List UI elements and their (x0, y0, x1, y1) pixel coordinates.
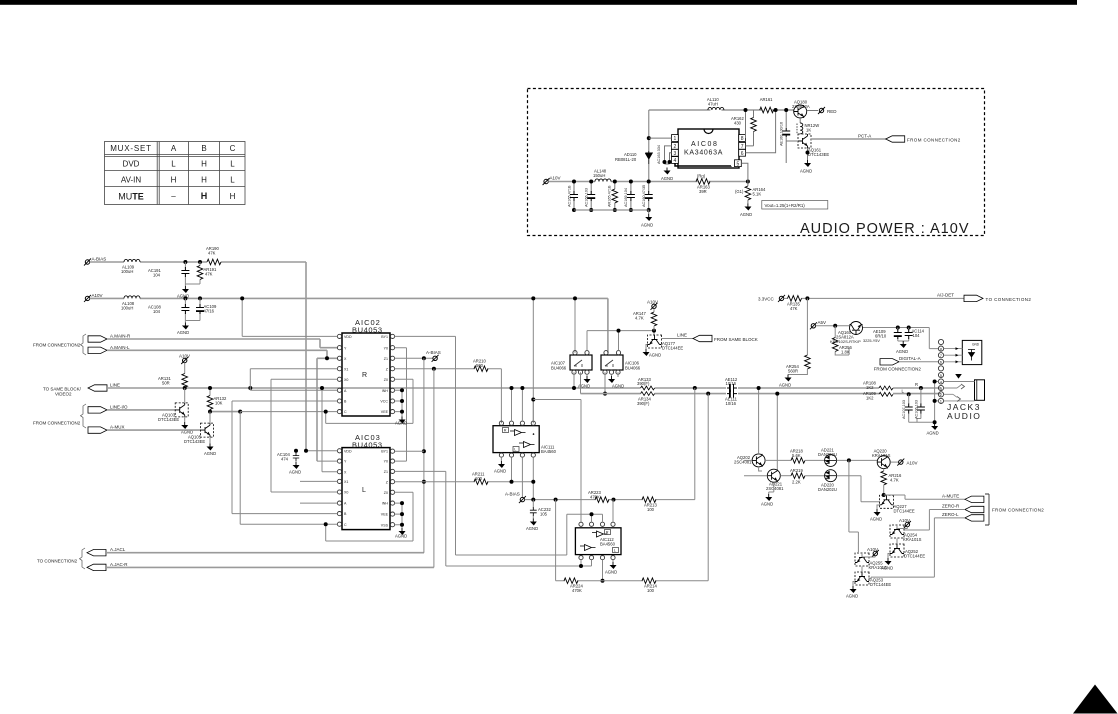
wire AQ103 collector (184, 388, 186, 422)
ground AQ253 (853, 582, 855, 587)
svg-text:A10V: A10V (647, 300, 658, 305)
svg-text:6R/10: 6R/10 (875, 334, 887, 339)
svg-text:BU4053: BU4053 (352, 326, 383, 335)
svg-text:AUDIO: AUDIO (947, 411, 981, 421)
wire A-MUX (107, 429, 201, 431)
wire AIC112 pins bottom feedback (581, 560, 592, 566)
ground A10V filter (184, 321, 186, 323)
transistor Q AQ177 DTC144EE (648, 335, 662, 348)
capacitor AC232 105 (532, 500, 534, 519)
svg-text:3: 3 (674, 151, 677, 157)
svg-text:4.7K: 4.7K (890, 478, 899, 483)
node pin1 junction (647, 136, 651, 140)
op-amp U3 AIC03 BU4053 body (342, 448, 390, 530)
ground main (648, 210, 650, 214)
pin 2 (672, 142, 679, 150)
ground AQ202/AQ221 (769, 482, 774, 494)
svg-text:AGND: AGND (612, 384, 624, 389)
resistor AR108 (879, 386, 893, 390)
svg-text:A-BIAS: A-BIAS (505, 492, 520, 497)
ground bus AIC03 right (395, 503, 402, 528)
AIC03 pin circles (337, 449, 394, 527)
svg-text:AC165 471B: AC165 471B (568, 185, 572, 207)
connector A.JACL (87, 550, 106, 556)
svg-text:AGND: AGND (641, 223, 653, 228)
svg-text:AC107 103: AC107 103 (902, 400, 906, 419)
wire pin6 (746, 110, 776, 153)
wire AIC107 outputs (574, 372, 581, 393)
wire R feedback vertical (694, 388, 696, 500)
svg-text:DTC143EE: DTC143EE (184, 439, 205, 444)
svg-text:100: 100 (475, 476, 483, 481)
svg-text:L: L (171, 160, 176, 169)
resistor AR223 470K (595, 497, 609, 503)
svg-text:L: L (614, 549, 616, 553)
bracket FROM CONNECTION2 (985, 494, 989, 525)
svg-text:A-MUX: A-MUX (110, 425, 125, 430)
transistor Q AQ180 (794, 105, 807, 118)
svg-text:R: R (362, 372, 367, 379)
AIC02 pin circles (337, 334, 394, 413)
top black bar (0, 0, 1077, 5)
resistor AR147 4.7K (653, 309, 655, 313)
pin 7 (739, 142, 746, 150)
svg-text:6: 6 (741, 151, 744, 157)
svg-text:DAN202U: DAN202U (818, 487, 837, 492)
svg-text:AC166 103: AC166 103 (585, 188, 589, 207)
AIC03 left pin labels (344, 449, 352, 526)
diode AD221 DAN202U (825, 454, 837, 466)
capacitor AC169 (624, 180, 635, 213)
wire vertical x648.8 (648, 110, 650, 182)
capacitor AC191 (183, 260, 187, 264)
svg-text:X0: X0 (344, 378, 348, 382)
svg-text:Z1: Z1 (384, 470, 388, 474)
svg-text:B: B (201, 144, 206, 153)
transistor Q AQ221 (767, 469, 780, 482)
AIC02 left pin labels (344, 335, 352, 414)
svg-text:A10V: A10V (92, 293, 103, 298)
wire BY1 AIC03 (395, 450, 424, 452)
svg-text:AGND: AGND (526, 526, 538, 531)
svg-text:A.MAIN-R: A.MAIN-R (110, 334, 131, 339)
capacitor AC106 (917, 388, 921, 422)
svg-text:Y0: Y0 (384, 346, 388, 350)
wire AIC111 pin4 top (532, 400, 534, 422)
wire AIC112 pin4 top (612, 500, 614, 523)
wire ZERO-L to AQ253 (871, 518, 965, 577)
svg-text:150uH: 150uH (593, 173, 605, 178)
svg-text:H: H (171, 176, 177, 185)
svg-text:104: 104 (153, 273, 161, 278)
resistor AR162 430 (731, 110, 756, 146)
svg-text:KRA101S: KRA101S (869, 565, 888, 570)
pin 6 (739, 149, 746, 157)
svg-text:MUX-SET: MUX-SET (110, 144, 152, 153)
svg-text:BY1: BY1 (381, 335, 388, 339)
op-amp U5 AIC112 BA4560 (575, 522, 621, 560)
svg-text:47K: 47K (790, 306, 798, 311)
resistor AR214 100 (642, 578, 656, 584)
wire LINE-I/O (107, 410, 240, 412)
op-amp U1 AIC08 KA34063A body (678, 129, 739, 168)
wire A AIC03 stub (300, 502, 337, 504)
svg-text:A/J-DET: A/J-DET (937, 292, 954, 297)
svg-text:A10V: A10V (867, 547, 878, 552)
wire pin1 (649, 137, 672, 139)
svg-text:105: 105 (540, 512, 548, 517)
wire A.JACL (106, 552, 424, 554)
svg-text:5.6K: 5.6K (792, 453, 801, 458)
svg-text:1K2: 1K2 (866, 385, 874, 390)
svg-text:470K: 470K (590, 494, 600, 499)
capacitor AE160 (780, 108, 791, 163)
svg-text:AGND: AGND (779, 383, 791, 388)
connector ZERO-L (965, 515, 984, 521)
wire pin2 pin3 grounds (665, 146, 672, 164)
svg-text:A10V: A10V (179, 354, 190, 359)
svg-text:Z0: Z0 (384, 491, 388, 495)
svg-text:AGND: AGND (761, 502, 773, 507)
svg-text:DAN202U: DAN202U (818, 452, 837, 457)
svg-text:L: L (230, 176, 235, 185)
svg-text:AGND: AGND (289, 470, 301, 475)
resistor AR218 5.6K (765, 459, 791, 461)
power terminal A5V (810, 322, 817, 329)
connector A.MAIN-R (88, 336, 107, 342)
wire AIC111 pin3b to A-BIAS (521, 457, 523, 497)
svg-text:AGND: AGND (578, 384, 590, 389)
wire X0 bus AIC02-AIC03 (271, 379, 337, 492)
svg-text:430: 430 (734, 121, 742, 126)
svg-text:(Rg): (Rg) (697, 174, 706, 179)
connector JACK3 pins (938, 339, 943, 403)
wire Y0 bus AIC02-AIC03 (395, 348, 407, 461)
svg-text:104: 104 (153, 309, 161, 314)
svg-text:L: L (362, 487, 366, 494)
svg-text:R: R (504, 429, 507, 433)
svg-text:AGND: AGND (927, 431, 939, 436)
wire AIC111 pin2 to R-line (511, 388, 513, 421)
transistor Q AQ103 DTC143EE (175, 403, 188, 417)
pin 8 (739, 135, 746, 143)
wire AIC111 pin4b down (532, 457, 534, 499)
svg-text:L: L (514, 448, 516, 452)
svg-text:BA4560: BA4560 (600, 542, 616, 547)
svg-text:H: H (201, 160, 207, 169)
svg-text:3225-Y5V: 3225-Y5V (863, 339, 880, 343)
svg-text:AC169 104: AC169 104 (624, 188, 628, 207)
svg-text:H: H (201, 191, 208, 201)
svg-text:R: R (915, 382, 918, 387)
svg-text:8: 8 (741, 136, 744, 142)
capacitor AE111 10/16 L-line (727, 390, 737, 398)
svg-text:AGND: AGND (740, 212, 752, 217)
bottom-right page triangle (1073, 685, 1118, 714)
svg-text:AR219: AR219 (790, 468, 803, 473)
svg-text:390(F): 390(F) (637, 381, 650, 386)
resistor AR134 390 (641, 392, 655, 396)
wire Y AIC03 from X AIC02 (317, 460, 337, 462)
wire Z0 AIC03 loop (326, 492, 413, 541)
connector A-MUX (88, 427, 107, 433)
svg-text:104: 104 (913, 333, 921, 338)
node L feedback (706, 392, 710, 396)
node R feedback (693, 386, 697, 390)
AIC02 right pin labels (380, 335, 388, 414)
table frame (105, 142, 246, 205)
svg-text:1: 1 (674, 136, 677, 142)
svg-text:47/16: 47/16 (204, 309, 215, 314)
svg-text:AGND: AGND (800, 169, 812, 174)
svg-text:A.MAIN-L: A.MAIN-L (110, 345, 130, 350)
svg-text:VIDEO2: VIDEO2 (55, 392, 72, 397)
svg-text:390(F): 390(F) (637, 401, 650, 406)
op-amp U2 AIC02 BU4053 body (342, 333, 390, 416)
inductor AL110 (707, 97, 724, 110)
resistor AR164 5.1K (735, 182, 766, 204)
svg-text:3.3VCC: 3.3VCC (758, 297, 775, 302)
wire A.MAIN-L (107, 350, 337, 461)
svg-text:AC163 334: AC163 334 (657, 145, 661, 164)
inductor NR12W 1K (797, 118, 819, 134)
svg-text:DTC143EE: DTC143EE (158, 417, 179, 422)
wire L-channel line (581, 393, 942, 395)
svg-text:100: 100 (647, 507, 655, 512)
svg-text:INH: INH (382, 389, 389, 393)
power terminal A-BIAS node (519, 496, 526, 503)
inductor AL148 150uH (595, 179, 611, 182)
svg-text:560R: 560R (788, 368, 798, 373)
AIC03 right pin labels (381, 449, 389, 527)
svg-text:C: C (344, 523, 347, 527)
diode AD220 DAN202U (825, 470, 837, 482)
wire ground rail (574, 209, 649, 211)
power terminal A10V mid (181, 357, 188, 364)
transistor Q AQ227 DTC144EE (880, 495, 894, 508)
svg-text:AGND: AGND (896, 349, 908, 354)
wire vertical jack-R bus (433, 369, 435, 568)
analog switch AIC107 BU4066 (551, 351, 592, 375)
wire pin8 drop (745, 110, 747, 138)
pin 4 (672, 157, 679, 165)
svg-text:AC106 103: AC106 103 (914, 400, 918, 419)
resistor AR254 560R (806, 298, 808, 355)
wire switch top rail y330.6 (587, 331, 654, 351)
wire AIC112 input feed (567, 514, 603, 522)
svg-text:1.8K: 1.8K (841, 349, 850, 354)
wire to pin5 (741, 163, 748, 181)
wire X1 AIC02 to LINE (250, 369, 337, 388)
wire BY1 AIC02 loop to AIC112 input (395, 336, 567, 555)
ground A5V caps (898, 340, 909, 342)
wire ZERO-R to AQ254 (904, 510, 965, 531)
wire AQ254-AQ252 (896, 539, 898, 544)
svg-text:KA34063A: KA34063A (684, 150, 723, 157)
svg-text:C: C (230, 144, 236, 153)
ground AIC106 (611, 374, 613, 376)
svg-text:47K: 47K (205, 272, 213, 277)
transistor Q AQ160 (850, 322, 863, 335)
wire y399.5 to AIC112 pin1 (533, 400, 581, 522)
svg-text:47uH: 47uH (708, 102, 718, 107)
svg-text:2SA812A: 2SA812A (792, 104, 810, 109)
wire VDD AIC03 (306, 450, 337, 452)
resistor AR165 (608, 180, 618, 213)
svg-text:KRA101S: KRA101S (903, 537, 922, 542)
capacitor AC165 (568, 180, 579, 213)
svg-text:DTC144EE: DTC144EE (904, 554, 925, 559)
wire jack ground bus (909, 382, 939, 423)
svg-text:INH: INH (382, 502, 389, 506)
svg-text:A.JAC-R: A.JAC-R (110, 562, 128, 567)
transistor Q AQ202 (752, 454, 765, 467)
wire Z1 AIC03 loop to AIC112 feedback (395, 471, 592, 566)
svg-text:H: H (230, 192, 236, 201)
wire AD221 to AQ220 (837, 459, 877, 461)
svg-text:Z1: Z1 (384, 357, 388, 361)
wire AQ255-AQ253 (861, 567, 863, 572)
svg-text:AV-IN: AV-IN (121, 176, 142, 185)
svg-text:A5V: A5V (818, 320, 827, 325)
resistor AR133 390 (641, 386, 655, 390)
connector ZERO-R (965, 506, 984, 512)
wire Z AIC03 / AR211 line (395, 481, 534, 483)
node L into jack (907, 392, 911, 396)
svg-text:470K: 470K (572, 588, 582, 593)
transistor Q2 AQ161 DTC143EE (798, 134, 811, 148)
pin 3 (672, 149, 679, 157)
svg-text:A-BIAS: A-BIAS (92, 257, 107, 262)
svg-text:L: L (230, 160, 235, 169)
connector A.JAC-R (87, 564, 106, 570)
capacitor AC104 474 (295, 451, 297, 462)
power terminal A-BIAS (84, 259, 91, 266)
svg-text:5: 5 (737, 161, 740, 167)
wire AR224 line y580.7 (556, 580, 709, 582)
wire AQ105 collector (209, 412, 211, 444)
svg-text:X0: X0 (344, 491, 348, 495)
ground AQ227 (877, 505, 880, 509)
wire pin4 to pin5 loop (675, 163, 731, 166)
svg-text:VEE: VEE (381, 513, 389, 517)
wire AD220 to AQ227 (837, 476, 880, 502)
ground AIC111 (500, 457, 502, 461)
svg-text:LINE: LINE (110, 383, 120, 388)
wire base AQ161 (786, 140, 798, 142)
svg-text:DTC144EE: DTC144EE (894, 509, 915, 514)
svg-text:A: A (171, 144, 177, 153)
svg-text:AGND: AGND (395, 534, 407, 539)
wire B bus AIC02-AIC03 (232, 401, 337, 514)
optical block box (962, 340, 982, 364)
svg-text:VSS: VSS (381, 523, 389, 527)
resistor AR131 50R (184, 363, 186, 388)
resistor AR163 39R (696, 179, 710, 185)
op-amp U4 AIC111 BA4560 (493, 421, 557, 457)
svg-text:AIC08: AIC08 (691, 141, 718, 148)
jack switch marker triangle (955, 374, 962, 379)
svg-text:474: 474 (281, 457, 289, 462)
svg-text:H: H (201, 176, 207, 185)
analog switch AIC106 BU4066 (601, 351, 641, 375)
transistor Q AQ254 KRA101S (890, 525, 904, 538)
svg-text:BU4066: BU4066 (551, 365, 567, 370)
wire LINE R-channel main (107, 387, 941, 389)
power terminal A-BIAS right of AIC02 (432, 355, 439, 362)
svg-text:PCT-A: PCT-A (858, 134, 871, 139)
svg-text:MUTE: MUTE (118, 192, 144, 202)
svg-text:AGND: AGND (661, 176, 673, 181)
svg-text:AC160 47/35: AC160 47/35 (642, 185, 646, 207)
wire 3.3VCC row (784, 297, 964, 299)
svg-text:2.2K: 2.2K (792, 480, 801, 485)
capacitor AC109 (198, 296, 202, 300)
wire AIC106 outputs (605, 372, 618, 393)
wire A5V row (816, 326, 939, 349)
svg-text:LINE-I/O: LINE-I/O (110, 404, 128, 409)
svg-text:Y0: Y0 (384, 460, 388, 464)
resistor AR211 100 (474, 479, 488, 485)
ground AQ177 (646, 345, 648, 350)
wire AQ253 base from ZERO-L (869, 577, 872, 578)
wire AIC111 pin3 to R-line (521, 388, 523, 421)
resistor AR213 100 (642, 497, 656, 503)
svg-text:A-BIAS: A-BIAS (426, 350, 441, 355)
svg-text:500: 500 (476, 363, 484, 368)
svg-text:50R: 50R (162, 381, 170, 386)
svg-text:AGND: AGND (846, 594, 858, 599)
wire main rail y181.5 (548, 181, 748, 183)
transistor Q AQ255 KRA101S (855, 553, 869, 566)
svg-text:100uH: 100uH (121, 306, 133, 311)
wire Z AIC02 to AR210 (395, 369, 502, 424)
svg-text:39R: 39R (699, 189, 707, 194)
pin 1 (672, 135, 679, 143)
svg-text:X1: X1 (344, 367, 348, 371)
power terminal A10V AQ254 (904, 521, 911, 528)
wire Z1 AIC02 / A-BIAS (395, 357, 433, 359)
node divider (746, 180, 750, 184)
svg-text:C: C (344, 410, 347, 414)
svg-text:A-MUTE: A-MUTE (942, 493, 959, 498)
wire AQ221 base link (744, 467, 767, 476)
wire L feedback vertical (707, 394, 709, 581)
connector PCT-A (886, 136, 905, 142)
svg-text:FROM CONNECTION2: FROM CONNECTION2 (33, 420, 81, 425)
wire AQ221 collector to L-line (776, 394, 778, 469)
svg-text:AGND: AGND (204, 451, 216, 456)
wire A.MAIN-R (107, 339, 337, 348)
svg-text:A10V: A10V (907, 461, 918, 466)
ground bus AIC02 right (395, 390, 402, 416)
resistor AR190 (207, 259, 221, 265)
svg-text:BU4066: BU4066 (625, 365, 641, 370)
power terminal A10V mute (890, 461, 898, 463)
capacitor AC166 (585, 180, 596, 213)
svg-text:FROM SAME BLOCK: FROM SAME BLOCK (714, 337, 758, 342)
capacitor AC160 (642, 180, 653, 213)
svg-text:BY1: BY1 (381, 449, 388, 453)
power terminal A10V AQ255 (872, 550, 879, 557)
svg-text:AGND: AGND (649, 353, 661, 358)
resistor AR161 (760, 97, 774, 113)
svg-text:AR165 471B: AR165 471B (608, 185, 612, 207)
svg-text:1K2: 1K2 (866, 395, 874, 400)
transistor Q AQ220 KRA101S (877, 456, 890, 469)
svg-text:10/16: 10/16 (726, 401, 737, 406)
node R into jack (919, 386, 923, 390)
